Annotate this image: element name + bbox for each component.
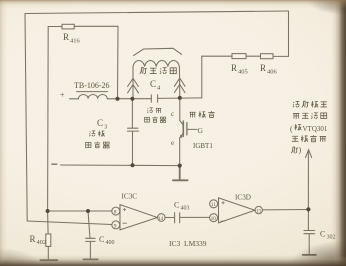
wire: corner down to collector rail [201, 56, 203, 98]
minus terminal dash [52, 163, 57, 165]
capacitor C403 [175, 213, 180, 223]
svg-text:10: 10 [211, 217, 217, 222]
op-amp IC3D [219, 198, 255, 223]
ground (C400) [83, 258, 97, 260]
node: collector junction [178, 96, 182, 100]
svg-text:): ) [299, 146, 302, 155]
IC3D minus mark [221, 220, 224, 222]
wire: outer left wire down to comparator minus row [25, 14, 27, 222]
resistor R416 [62, 24, 74, 29]
svg-text:406: 406 [267, 69, 278, 76]
wire: outer right wire down to R406 [288, 11, 290, 56]
wire: R416 to right corner [74, 25, 118, 27]
transistor IGBT1 [180, 121, 184, 126]
label 驱动控制 [293, 101, 300, 107]
wire: + input lead [70, 98, 79, 100]
svg-text:IC3C: IC3C [122, 193, 138, 201]
svg-text:C: C [150, 79, 156, 89]
wire: IC3D out to node [262, 209, 306, 211]
svg-text:8: 8 [114, 210, 117, 216]
svg-text:R: R [63, 32, 69, 42]
wire: main rail from TB node to C4 left plate [118, 98, 152, 100]
hanzi 接 in paren line [295, 124, 302, 130]
node: R402 junction [46, 209, 50, 213]
svg-text:e: e [171, 139, 174, 147]
svg-text:C: C [99, 235, 104, 244]
wire: R416 branch down to +300V node [117, 26, 120, 98]
label 滤波 (filter) [89, 131, 95, 137]
wire: bottom rail [61, 164, 180, 167]
svg-text:VTQ301: VTQ301 [303, 125, 328, 133]
wire: R406 to top-right corner [273, 55, 289, 57]
node: TB/R416 junction [116, 97, 120, 101]
svg-text:IC3D: IC3D [235, 194, 251, 202]
IC3C pin9 circle [112, 221, 120, 229]
svg-text:R: R [231, 63, 237, 73]
node: C3 bottom junction [131, 163, 135, 167]
op-amp IC3C [120, 205, 157, 230]
IC3D pin11 circle [210, 200, 218, 208]
hanzi labels drawn as glyph shapes [86, 68, 327, 154]
svg-text:405: 405 [238, 69, 248, 76]
node: C400 junction [86, 209, 90, 213]
node: C3/coil junction [130, 97, 134, 101]
wire: bottom-left corner to IC3C pin9 [27, 221, 112, 225]
svg-text:C: C [97, 118, 103, 128]
inductor TB-106-26 core bar [77, 91, 108, 93]
hanzi 极 last line [291, 147, 298, 153]
svg-text:402: 402 [37, 239, 47, 246]
svg-text:4: 4 [157, 85, 161, 92]
svg-text:3: 3 [104, 124, 107, 131]
wire: left divider vertical (to R402 node) [47, 27, 50, 212]
heating coil hat [134, 48, 182, 55]
svg-text:400: 400 [106, 240, 115, 246]
inductor TB-106-26 [79, 95, 108, 99]
label 电容器 (capacitor) [144, 117, 149, 122]
wire: coil left lead with double arrow [132, 67, 134, 99]
wire: between R405 and R406 [246, 55, 261, 57]
capacitor C4 [151, 95, 157, 102]
svg-text:c: c [171, 110, 174, 118]
svg-text:C: C [174, 201, 179, 210]
heating coil [133, 60, 179, 66]
svg-text:403: 403 [181, 206, 190, 212]
IC3C plus mark [123, 208, 126, 211]
wire: IC3C out to C403 [165, 217, 175, 219]
label 三极管基 [292, 136, 299, 141]
IC3D pin10 circle [210, 214, 218, 222]
resistor R406 [261, 54, 274, 59]
label 开关管 (switching tube) [189, 112, 195, 117]
wire: R405 left to corner above IGBT [202, 55, 232, 57]
resistor R405 [232, 54, 246, 59]
svg-text:302: 302 [327, 235, 336, 241]
svg-text:G: G [198, 126, 204, 135]
IGBT Q collector wire [179, 98, 181, 121]
wire: pin8 row from divider node [48, 210, 112, 212]
IC3D output circle pin13 [255, 206, 262, 213]
label 谐振 (resonant) [147, 108, 153, 113]
svg-text:IGBT1: IGBT1 [193, 142, 213, 150]
IC3C minus mark [123, 222, 126, 224]
label 电容器 (filter cap) [86, 142, 91, 147]
node: emitter/rail junction [178, 164, 182, 168]
wire: outer top wire [25, 11, 289, 14]
wire: inductor to node [107, 98, 117, 100]
svg-text:13: 13 [256, 210, 262, 215]
label 加热线圈 (heating coil) [140, 68, 147, 74]
IC3C pin8 circle [112, 207, 120, 215]
svg-text:+: + [60, 91, 65, 100]
svg-text:416: 416 [70, 38, 81, 45]
ground (emitter) [173, 166, 188, 181]
svg-text:C: C [320, 230, 325, 239]
ground (C302) [303, 254, 316, 256]
wire: output node up with arrow [307, 151, 309, 209]
label 信号输出 [293, 113, 299, 118]
arrow left chevrons [128, 78, 139, 93]
svg-text:R: R [260, 63, 266, 73]
wire: C403 to IC3D pin10 [180, 216, 210, 218]
wire: coil right lead [178, 67, 180, 98]
ground (R402) [40, 259, 57, 261]
IC3D plus mark [222, 202, 225, 205]
svg-text:IC3 LM339: IC3 LM339 [169, 239, 207, 248]
wire: rail C4 right plate to corner [158, 97, 202, 100]
capacitor C302 [304, 209, 315, 254]
node: output node [306, 207, 310, 211]
svg-text:(: ( [290, 125, 293, 134]
IC3C output circle pin14 [158, 214, 166, 222]
wire: R416 left stub from left vertical [48, 26, 62, 28]
capacitor C400 [86, 211, 96, 259]
svg-text:9: 9 [114, 223, 117, 229]
svg-text:R: R [30, 234, 36, 244]
svg-text:11: 11 [211, 203, 216, 208]
arrowhead output [306, 150, 312, 158]
svg-text:14: 14 [158, 217, 164, 222]
svg-text:TB-106-26: TB-106-26 [74, 81, 110, 90]
capacitor C3 [127, 99, 138, 166]
arrow right chevrons [174, 78, 185, 93]
resistor R402 [47, 211, 50, 234]
